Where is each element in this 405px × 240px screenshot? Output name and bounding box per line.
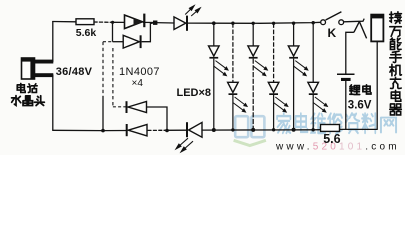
junction dots branch4 [272, 22, 275, 25]
connector upper prong [35, 60, 54, 64]
LED5 emission arrows [274, 97, 288, 112]
wire dashed horizontal at y41.7 [103, 41, 113, 43]
wire bottom rail [53, 129, 126, 131]
wire top rail resistor to node A (dashed scan look) [94, 21, 113, 23]
node B junction [153, 21, 157, 25]
battery BT1 [337, 74, 355, 81]
LED3 emission arrows [233, 97, 247, 112]
diode D3 (1N4007) on bottom rail [126, 124, 147, 136]
wire bottom rail to LED8 [164, 129, 186, 131]
LED branch 4 [273, 23, 275, 130]
LED branch 2 [232, 23, 234, 130]
wire LED1 to switch [188, 22, 321, 23]
wire switch to plug [344, 19, 365, 22]
LED1 emission arrows [185, 6, 200, 16]
junction dot x103/rail [101, 129, 105, 133]
LED6 (branch5) [288, 46, 299, 59]
wire to D2 anode [113, 41, 124, 43]
svg-text:5.6: 5.6 [323, 132, 340, 146]
wire bottom rail resistor R2 to right corner [340, 128, 378, 130]
LED4 (branch3) [248, 46, 259, 59]
LED5 (branch4) [268, 82, 279, 95]
switch K [321, 12, 344, 25]
wire left vertical from connector lower prong to bottom rail [52, 75, 54, 130]
wire charger socket down to bottom rail [376, 42, 378, 130]
LED3 (branch2) [228, 82, 239, 95]
wire D4 anode down to bottom rail [147, 107, 168, 131]
wire D2 cathode up to node B [142, 23, 155, 42]
diode D4 (1N4007) [126, 101, 147, 113]
resistor R1 5.6k [76, 19, 94, 25]
wire node A to D1 [113, 21, 125, 23]
LED4 emission arrows [253, 61, 267, 76]
label 水晶头 [12, 96, 45, 106]
LED branch 6 [312, 23, 314, 130]
svg-text:LED×8: LED×8 [177, 87, 212, 99]
junction dot D4/rail [165, 129, 169, 133]
wire D2 left vertical from node A [112, 22, 114, 41]
LED1 on top rail [174, 16, 188, 31]
wire dashed vertical at x113 down to D4 [112, 48, 114, 107]
wire plug to battery top [346, 32, 354, 74]
telephone crystal head connector body [22, 58, 35, 79]
wire D1 to node B [143, 21, 155, 23]
junction dots branch3 [252, 22, 255, 25]
label 锂电 [350, 85, 371, 95]
svg-text:1N4007: 1N4007 [119, 66, 160, 78]
svg-text:×4: ×4 [132, 78, 144, 89]
charger socket connector [371, 14, 384, 41]
wire top rail left [53, 21, 76, 23]
LED8 emission arrows [176, 138, 193, 152]
diode D1 (1N4007) [125, 14, 146, 29]
label 电话 [17, 84, 37, 93]
svg-text:36/48V: 36/48V [56, 66, 93, 78]
wire battery to bottom rail [345, 81, 347, 129]
svg-text:3.6V: 3.6V [348, 100, 372, 112]
svg-text:K: K [328, 26, 337, 40]
LED7 emission arrows [313, 97, 327, 112]
LED branch 5 [293, 23, 295, 130]
LED2 emission arrows [214, 61, 228, 76]
label 接万能手机充电器 (vertical) [390, 12, 402, 115]
wire bottom rail dashes after D3 [148, 129, 164, 131]
watermark 家电维修资料网 [277, 113, 396, 134]
plug symbol [354, 22, 367, 39]
LED6 emission arrows [294, 61, 308, 76]
LED branch 1 [213, 23, 215, 130]
resistor R2 on bottom rail [321, 125, 340, 132]
wire dashed vertical at x103 to bottom rail [102, 42, 104, 96]
diode D2 (1N4007) [123, 35, 141, 48]
LED7 (branch6) [308, 82, 319, 95]
watermark book icon [234, 116, 266, 145]
junction dots branch5 [292, 22, 295, 25]
wire dashed horizontal to D4 cathode [113, 106, 126, 108]
LED2 (branch1) [209, 46, 220, 59]
LED branch 3 [252, 23, 254, 130]
node A junction [111, 21, 114, 24]
junction dots branch6 [312, 21, 315, 24]
LED8 on bottom rail [186, 122, 202, 137]
junction dots branch1 [212, 21, 216, 25]
junction dots branch2 [231, 22, 234, 25]
wire bottom rail right section [202, 129, 321, 131]
svg-text:5.6k: 5.6k [76, 27, 97, 39]
wire left vertical from top rail to connector upper prong [52, 22, 54, 62]
connector lower prong [35, 73, 54, 77]
wire node B to LED1 [155, 22, 174, 24]
